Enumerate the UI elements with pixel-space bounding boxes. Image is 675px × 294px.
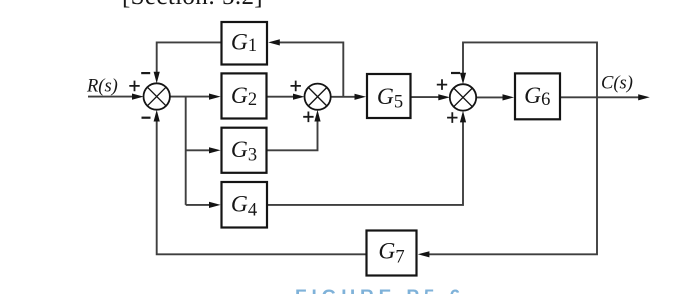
arrowhead down into S3 top [460,73,466,85]
block G3 box [222,128,267,173]
wire takeoff after S2 up into G1 input [280,42,344,96]
sign − above S3 [451,72,460,74]
arrowhead down into S1 top [154,72,160,84]
wire R(s) input [88,96,135,98]
arrowhead into S1 [132,94,144,100]
arrowhead into S3 [438,94,450,100]
svg-text:G3: G3 [231,137,257,166]
block G7 box [367,231,417,276]
wire S3 to G6 [476,96,506,98]
wire takeoff after S1 down to G3 and G4 [186,97,212,205]
sign + at bottom input of S3 [447,112,457,123]
sign + at R(s) input of S1 [129,81,139,92]
wire G5 to S3 [412,96,442,98]
block G4 box [222,182,268,228]
svg-text:G4: G4 [231,192,257,221]
summing junction S3 [450,84,476,110]
arrowhead into G5 [355,94,367,100]
block G6 box [515,73,560,119]
sign + at bottom input of S2 [303,112,313,123]
wire G6 to C(s) output [561,96,640,98]
wire G3 output up into S2 bottom [268,121,318,151]
wire S1 to G2 [170,96,212,98]
wire G1 output down into S1 top [157,42,222,73]
sign + at left input of S2 [291,81,301,92]
svg-text:G1: G1 [231,30,257,56]
sign + at left input of S3 [437,79,447,90]
svg-text:C(s): C(s) [601,74,633,94]
summing junction S1 [144,83,170,109]
wire C(s) takeoff down to G7 input [428,97,597,254]
arrowhead up into S3 bottom [460,111,466,123]
svg-text:FIGURE P5.6: FIGURE P5.6 [295,287,465,294]
sign − below S1 [142,117,151,119]
arrowhead left into G7 [418,251,430,257]
wire S2 to G5 [331,96,358,98]
block G2 box [222,73,267,118]
svg-text:G2: G2 [231,83,257,110]
wire G7 output to S1 bottom [157,121,366,255]
svg-text:R(s): R(s) [86,77,118,97]
sign − above S1 [141,72,150,74]
arrowhead C(s) output [638,94,650,100]
wire G2 to S2 [268,96,297,98]
arrowhead into G4 [209,202,221,208]
arrowhead up into S1 bottom [154,110,160,122]
arrowhead left into G1 [268,39,280,45]
wire C(s) takeoff up and into S3 top [463,42,597,97]
summing junction S2 [305,84,331,110]
block G5 box [367,74,411,118]
arrowhead up into S2 bottom [314,110,320,122]
arrowhead into G6 [503,94,515,100]
svg-text:G6: G6 [524,83,550,110]
svg-text:[Section: 5.2]: [Section: 5.2] [122,0,263,10]
arrowhead into G2 [209,94,221,100]
svg-text:G7: G7 [378,239,404,268]
arrowhead into S2 [293,94,305,100]
block G1 box [222,22,268,65]
arrowhead into G3 [209,147,221,153]
wire G4 output up into S3 bottom [268,122,463,205]
svg-text:G5: G5 [377,84,403,113]
